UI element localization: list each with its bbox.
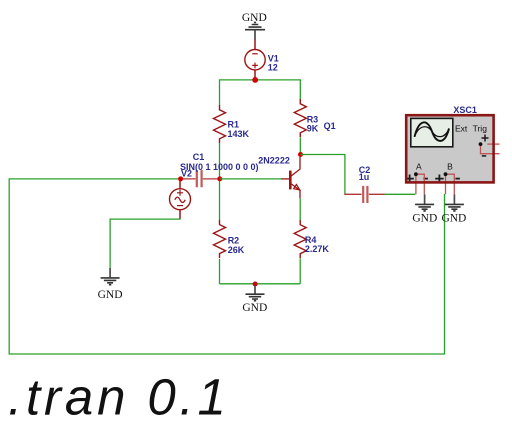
svg-text:GND: GND: [441, 212, 466, 224]
channel A plus mark: [405, 175, 413, 183]
svg-text:GND: GND: [242, 302, 267, 314]
svg-text:A: A: [416, 162, 422, 172]
wire top rail to R1: [219, 79, 221, 105]
node junction at V1/top rail: [252, 77, 258, 83]
svg-text:XSC1: XSC1: [453, 105, 477, 115]
svg-text:Ext: Ext: [455, 123, 468, 133]
wire base column to R2: [219, 181, 221, 220]
wire collector to C2: [301, 155, 345, 195]
wire base node to Q1 base: [220, 178, 281, 180]
wire C2 to scope A: [385, 193, 416, 195]
svg-text:Trig: Trig: [473, 123, 488, 133]
svg-text:GND: GND: [412, 212, 437, 224]
ground (left, under V2): [101, 268, 120, 285]
svg-text:Q1: Q1: [324, 121, 336, 131]
capacitor C1 wires: [181, 178, 220, 180]
wire top rail: [220, 79, 301, 81]
scope screen sine icon: [415, 122, 450, 141]
capacitor C2 plates: [363, 186, 367, 203]
oscilloscope XSC1 body fill: [406, 115, 493, 182]
resistor R4: [294, 220, 306, 258]
ext trig minus mark: [482, 155, 486, 157]
svg-text:GND: GND: [98, 289, 123, 301]
wire scope A minus hook: [416, 174, 424, 194]
svg-text:C1: C1: [193, 152, 205, 162]
svg-text:R2: R2: [228, 235, 240, 245]
svg-text:.tran 0.1: .tran 0.1: [8, 369, 230, 426]
svg-text:9K: 9K: [307, 124, 319, 134]
wire V1 bottom stub: [254, 70, 256, 80]
wire scope A plus stub: [415, 174, 417, 194]
oscilloscope XSC1 border: [406, 115, 493, 182]
channel B plus mark: [435, 175, 443, 183]
source V2 (sine): [170, 189, 191, 210]
wire R3 to collector node: [299, 138, 301, 155]
wire scope B plus stub: [445, 174, 447, 194]
transistor Q1 2N2222: [281, 157, 300, 199]
ground (scope B): [445, 194, 464, 211]
svg-text:B: B: [447, 162, 453, 172]
svg-text:2N2222: 2N2222: [258, 156, 290, 166]
wire V2 to left ground: [110, 219, 181, 268]
node junction collector: [298, 152, 303, 157]
ground (top, above V1): [245, 22, 265, 39]
svg-text:V2: V2: [181, 169, 192, 179]
svg-text:GND: GND: [242, 12, 267, 24]
svg-text:12: 12: [268, 62, 278, 72]
channel B minus mark: [455, 178, 460, 180]
node junction bottom rail / ground: [253, 282, 258, 287]
wire ext trig hook: [481, 144, 500, 154]
wire ext trig stub: [487, 143, 499, 145]
node junction C1/base: [217, 176, 222, 181]
channel A minus mark: [423, 178, 428, 180]
svg-text:143K: 143K: [228, 129, 250, 139]
wire V2 top stub: [179, 181, 181, 189]
resistor R2: [214, 220, 226, 258]
node junction V2/C1: [178, 176, 183, 181]
svg-text:R1: R1: [228, 119, 240, 129]
resistor R3: [294, 99, 306, 137]
wire V1 top stub: [254, 40, 256, 50]
node ext trig terminal: [479, 142, 483, 146]
scope screen: [411, 118, 453, 146]
wire bottom rail: [220, 283, 301, 285]
ext trig plus mark: [482, 135, 489, 142]
wire left loop: V2 top to bottom to scope B: [9, 179, 444, 354]
svg-text:2.27K: 2.27K: [305, 244, 330, 254]
wire top rail to R3: [299, 79, 301, 99]
ground (scope A): [415, 194, 434, 211]
wire scope B minus hook: [446, 174, 455, 194]
svg-text:1u: 1u: [359, 172, 370, 182]
resistor R1: [214, 105, 226, 143]
voltage source V1: [245, 50, 265, 70]
wire V2 bottom stub: [179, 210, 181, 219]
svg-text:26K: 26K: [228, 245, 245, 255]
capacitor C1 plates: [197, 170, 202, 187]
ground (bottom center): [246, 286, 265, 301]
wire R2 to bottom rail: [219, 259, 221, 284]
node scope A terminal: [414, 172, 418, 176]
node scope B terminal: [444, 172, 448, 176]
capacitor C2 wires: [344, 193, 384, 195]
wire R4 to bottom rail: [299, 258, 301, 284]
wire emitter to R4: [299, 198, 301, 220]
wire R1 to base node: [219, 143, 221, 179]
